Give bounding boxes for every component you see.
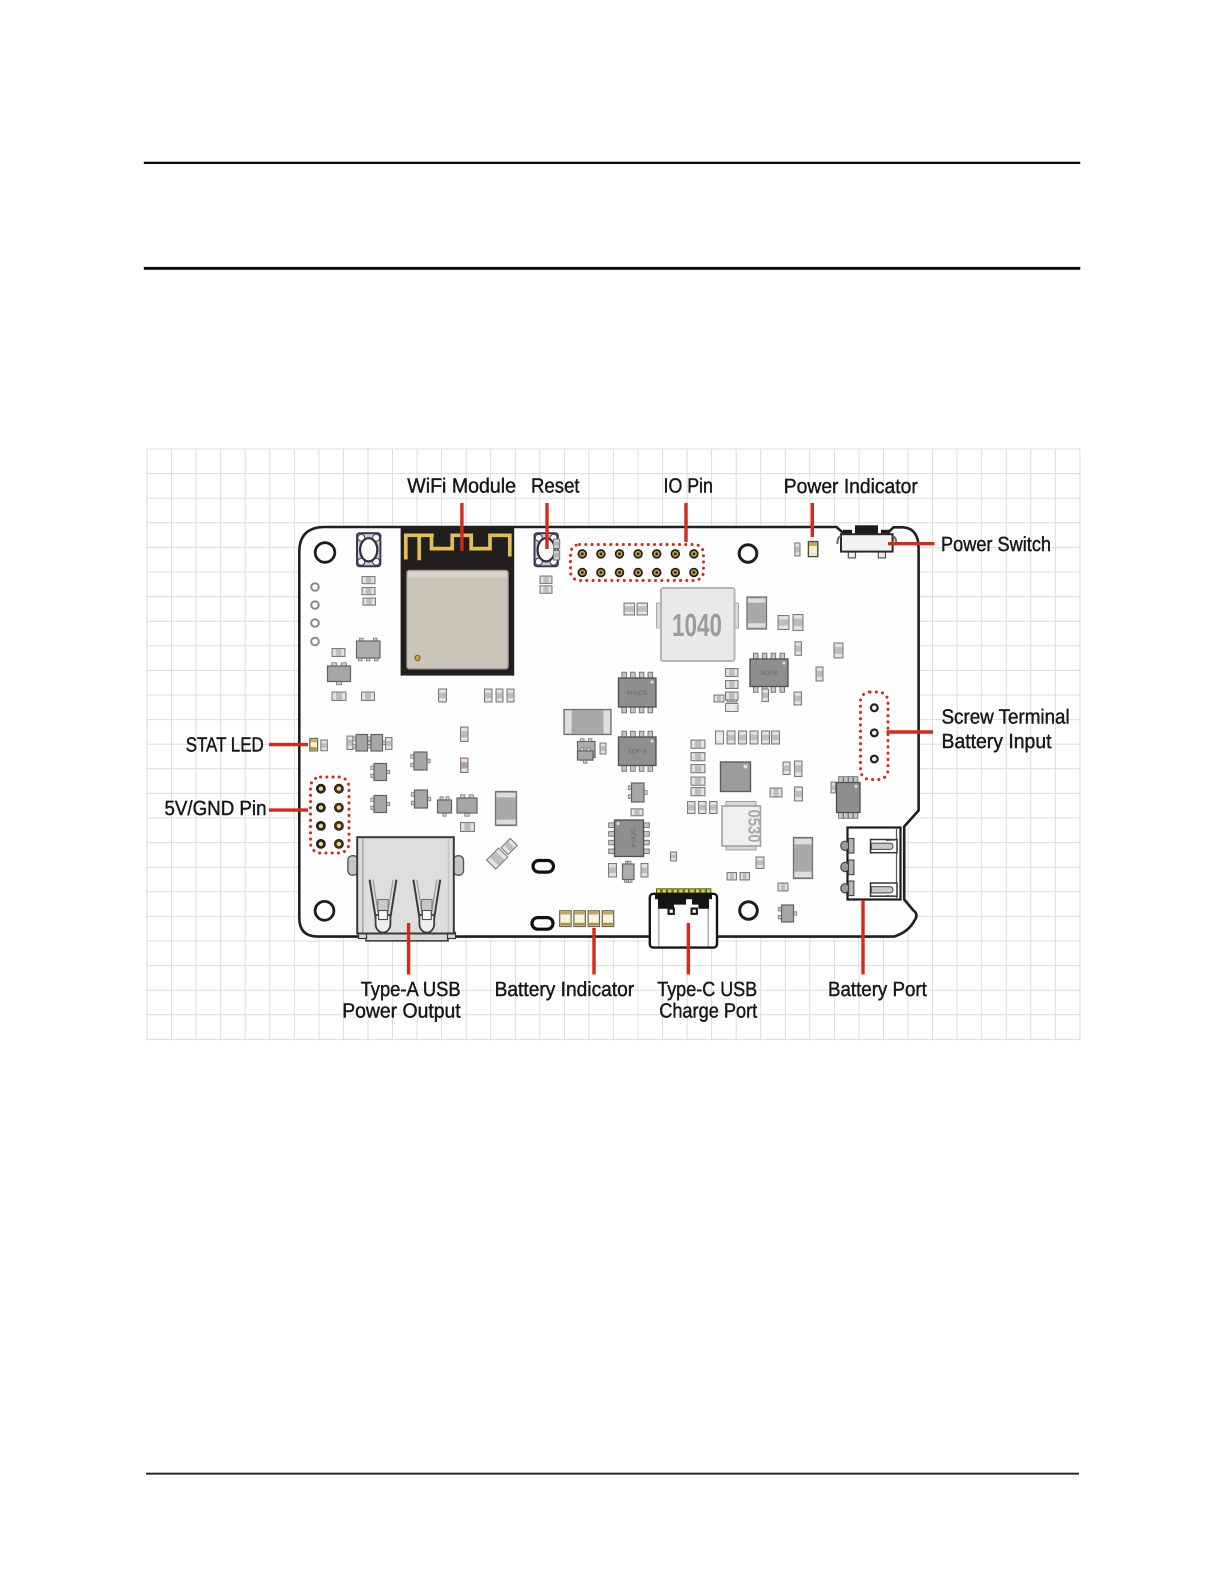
passive components below wifi [439, 689, 515, 702]
passive components top-left [328, 577, 381, 701]
svg-text:8OP8: 8OP8 [761, 670, 778, 677]
power indicator pointer line [811, 503, 814, 537]
capacitor C13 [747, 597, 767, 629]
slot hole 1 [533, 861, 554, 873]
svg-text:Power Output: Power Output [342, 1000, 461, 1023]
type-c pointer line [687, 923, 690, 975]
IC U1 SOP-8 [619, 672, 657, 713]
svg-text:STAT LED: STAT LED [186, 734, 264, 757]
capacitor 0530 [722, 802, 764, 851]
power switch [837, 525, 896, 558]
inductor 1040 [657, 588, 739, 661]
passive cluster center [578, 603, 780, 814]
svg-text:Battery Indicator: Battery Indicator [495, 978, 635, 1001]
battery indicator LEDs [560, 911, 614, 927]
capacitor C10 [564, 710, 611, 735]
power indicator LED [795, 543, 800, 556]
tilted capacitors [487, 837, 519, 869]
svg-text:WiFi Module: WiFi Module [407, 474, 516, 497]
PCB board outline [299, 527, 918, 937]
IC U4 SOP-4 [609, 820, 650, 857]
screw terminal holes [871, 704, 878, 762]
mounting hole top-middle [739, 545, 757, 563]
svg-text:Type-A USB: Type-A USB [361, 978, 461, 1001]
svg-text:Power Switch: Power Switch [941, 533, 1051, 556]
capacitor C12 [794, 838, 813, 879]
svg-text:IO Pin: IO Pin [664, 474, 713, 497]
type-a usb pointer line [407, 923, 410, 975]
svg-text:Reset: Reset [531, 474, 580, 497]
Type-A USB connector [348, 837, 464, 941]
svg-text:Charge Port: Charge Port [659, 1000, 757, 1023]
IO pin header (7x2) [578, 550, 697, 576]
STAT LED [310, 739, 318, 751]
Type-C USB connector [650, 889, 717, 948]
screw terminal dotted outline [861, 692, 889, 780]
stat led pointer line [269, 743, 308, 746]
IC U6 SOIC [837, 777, 861, 819]
passive cluster right of 1040 [726, 615, 844, 802]
mounting hole bottom-middle [740, 902, 758, 920]
IO pin dotted outline [571, 545, 704, 581]
battery port pointer line [861, 900, 864, 975]
5V/GND pin header (2x4) [316, 784, 343, 848]
WiFi module shield [401, 528, 515, 676]
IC U5 QFN [721, 762, 751, 792]
tactile button SW1 [357, 533, 380, 566]
svg-text:SOP-4: SOP-4 [629, 829, 636, 849]
top horizontal rule [144, 162, 1081, 164]
svg-text:1040: 1040 [672, 607, 722, 643]
second horizontal rule [144, 267, 1081, 270]
svg-text:5V/GND Pin: 5V/GND Pin [165, 797, 267, 820]
via holes column [311, 583, 319, 645]
svg-text:Battery Port: Battery Port [828, 978, 927, 1001]
power switch pointer line [888, 542, 935, 545]
capacitor C11 [496, 792, 517, 826]
bottom horizontal rule [146, 1473, 1079, 1475]
passive cluster bottom-center [609, 783, 797, 922]
svg-text:0530: 0530 [745, 810, 764, 843]
io pin pointer line [684, 503, 687, 542]
grid background [147, 449, 1080, 1041]
svg-text:8HdO8: 8HdO8 [627, 690, 648, 697]
5v/gnd pointer line [269, 808, 308, 811]
svg-text:Power Indicator: Power Indicator [784, 475, 918, 498]
passive components below reset [540, 539, 560, 593]
passive cluster lower-left [371, 752, 477, 832]
IC U3 SOP-8 [619, 731, 657, 771]
IC U2 SOP-8 [750, 653, 788, 692]
mounting hole top-left [315, 543, 335, 563]
screw terminal pointer line [887, 730, 934, 733]
IC U7 SOT-23-5 [578, 739, 596, 761]
reset pointer line [545, 503, 548, 549]
svg-text:Type-C USB: Type-C USB [657, 978, 757, 1001]
svg-text:SOP-8: SOP-8 [628, 749, 648, 756]
reset button SW2 [535, 533, 558, 566]
mounting hole bottom-left [315, 901, 334, 920]
slot hole 2 [532, 918, 553, 930]
svg-text:Battery Input: Battery Input [942, 730, 1052, 753]
battery indicator pointer line [592, 928, 595, 975]
wifi module pointer line [460, 503, 463, 551]
passive cluster mid-left [347, 727, 468, 773]
svg-text:Screw Terminal: Screw Terminal [942, 706, 1070, 729]
battery port connector [841, 828, 901, 900]
5V/GND dotted outline [311, 777, 350, 853]
